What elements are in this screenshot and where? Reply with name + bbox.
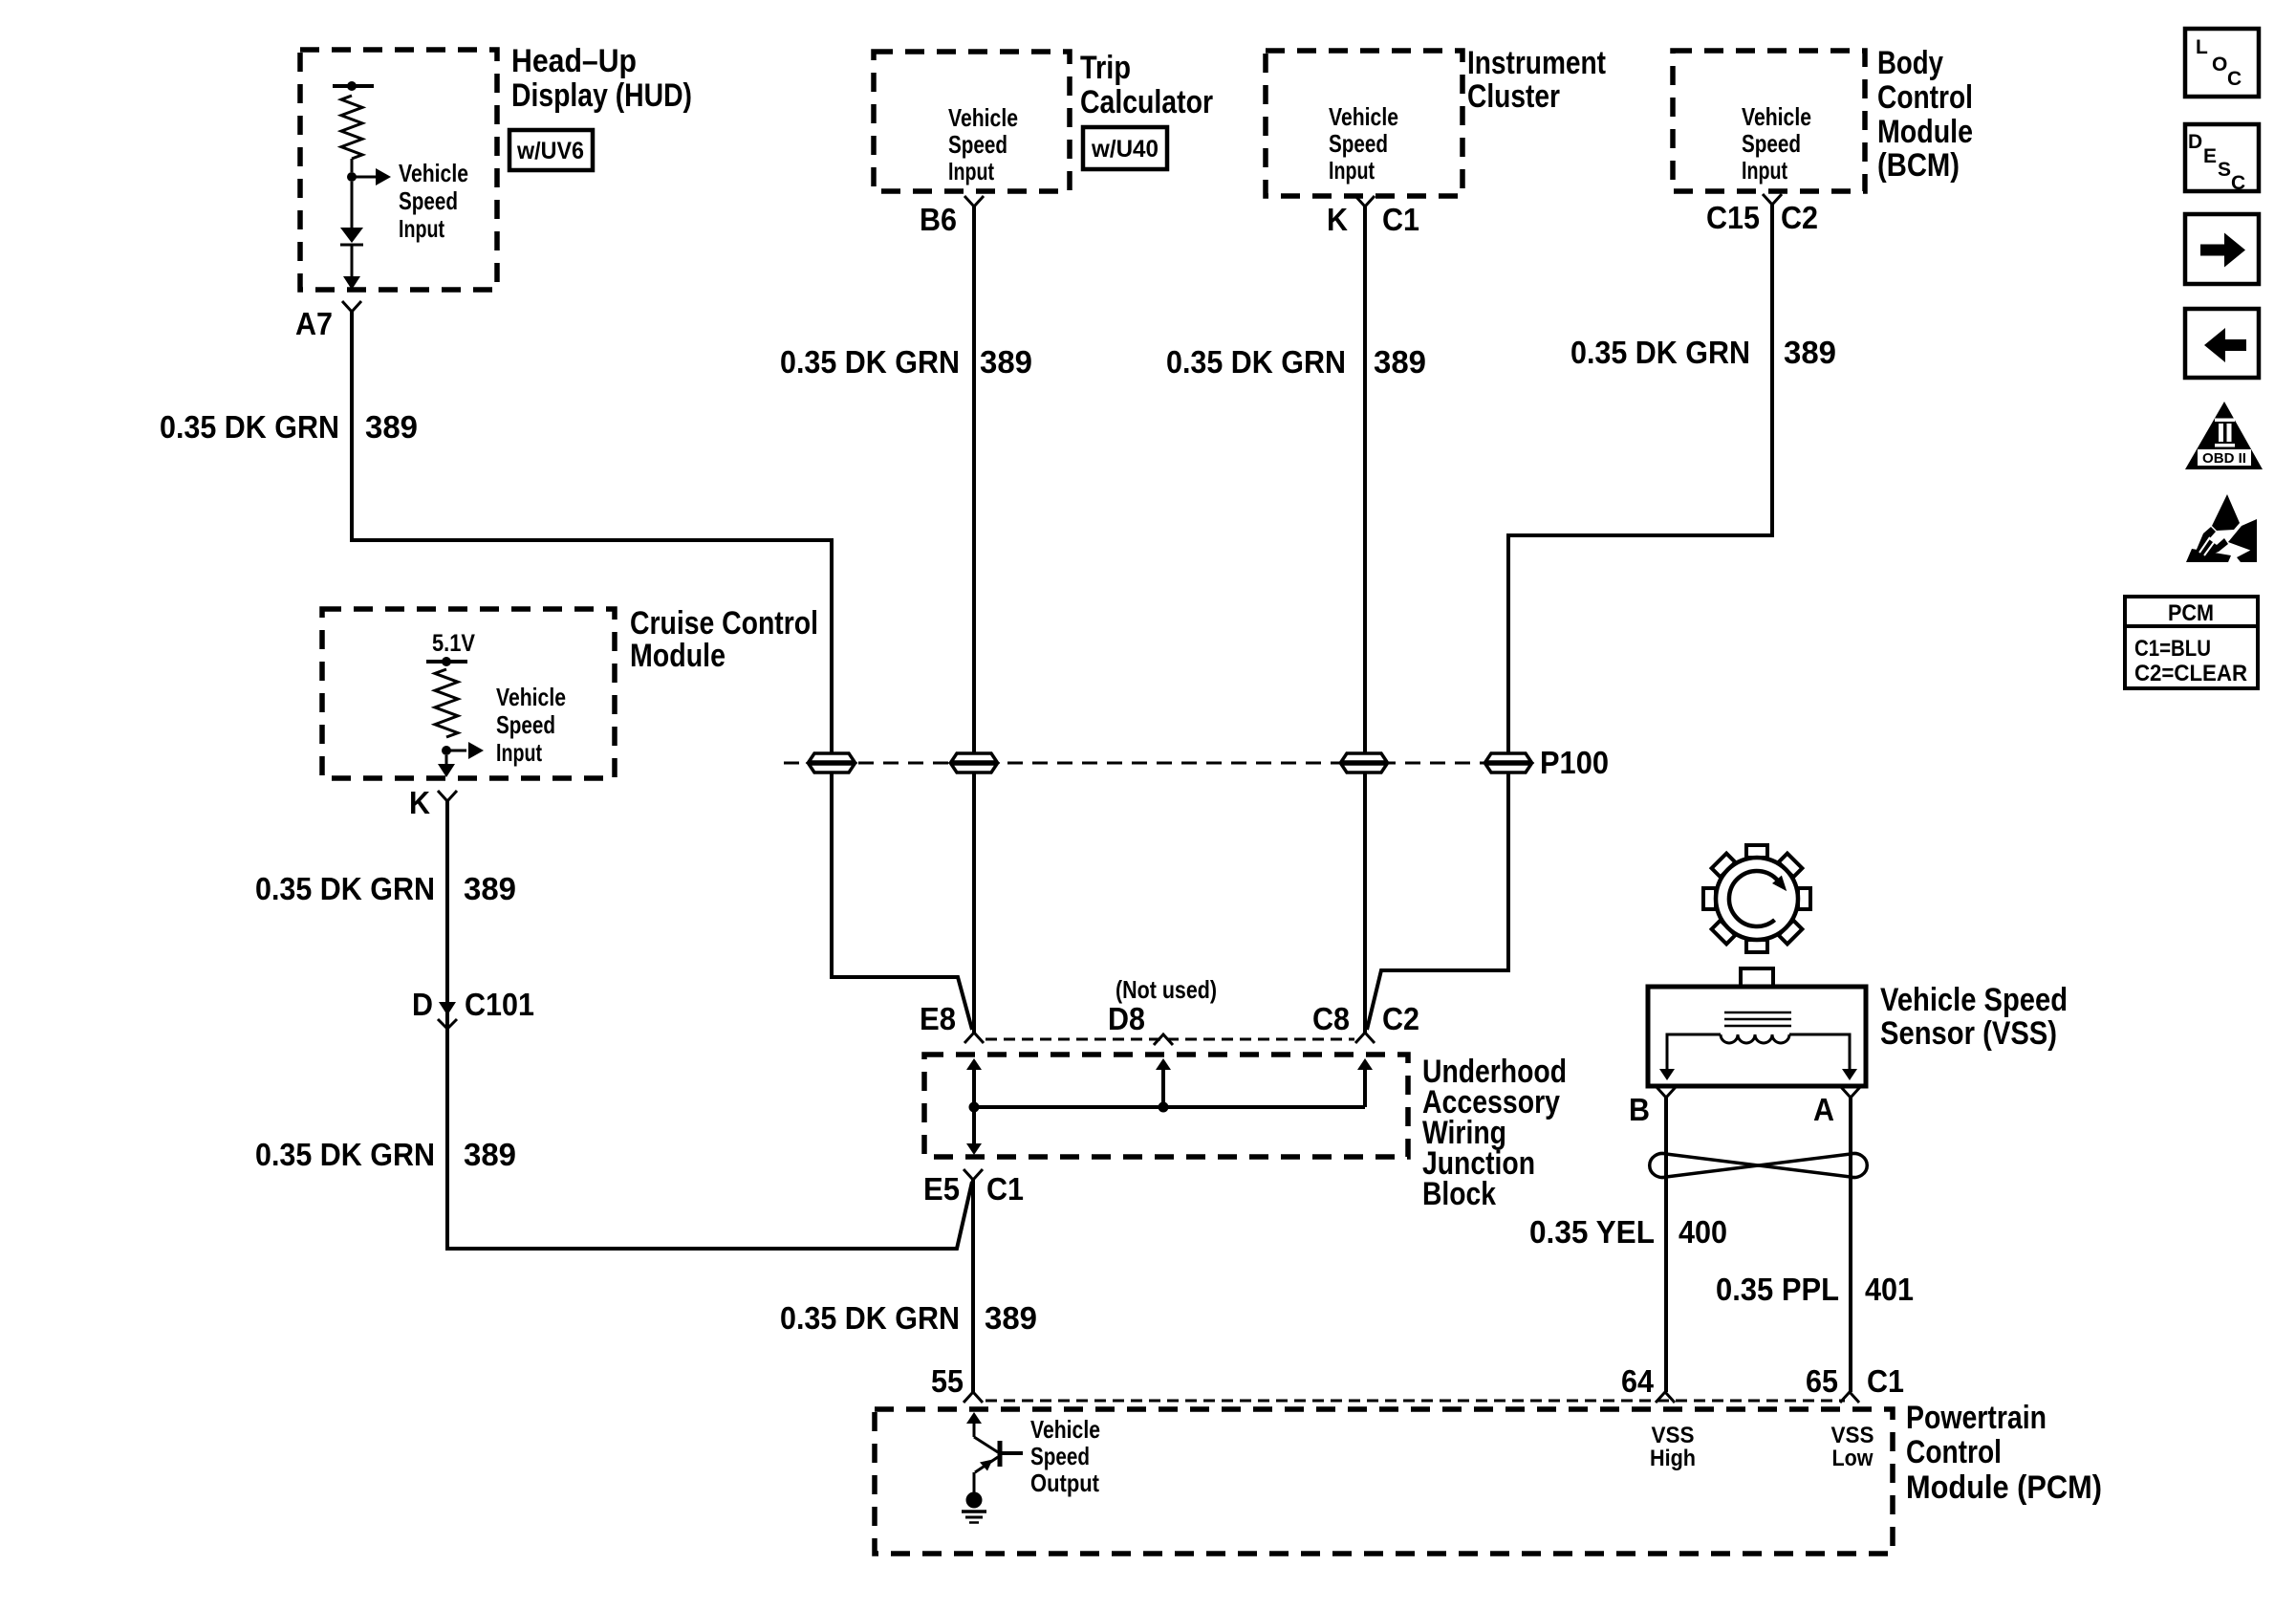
signal tap arrow (cruise internal) bbox=[446, 750, 466, 752]
svg-text:Head–Up: Head–Up bbox=[511, 43, 637, 79]
option box w/U40 bbox=[1083, 127, 1167, 169]
svg-text:C1: C1 bbox=[1382, 202, 1419, 237]
svg-text:PCM: PCM bbox=[2168, 600, 2214, 626]
svg-text:Low: Low bbox=[1832, 1446, 1874, 1471]
svg-text:389: 389 bbox=[980, 344, 1032, 380]
svg-text:D: D bbox=[2188, 131, 2202, 153]
svg-text:Speed: Speed bbox=[948, 130, 1007, 159]
svg-text:Cluster: Cluster bbox=[1467, 78, 1560, 115]
module box: Body Control Module (BCM) bbox=[1673, 51, 1865, 191]
svg-text:400: 400 bbox=[1679, 1214, 1727, 1250]
connector fork E8 bbox=[964, 1033, 984, 1043]
svg-text:D: D bbox=[412, 987, 433, 1022]
svg-text:Display (HUD): Display (HUD) bbox=[511, 77, 692, 114]
svg-text:C8: C8 bbox=[1312, 1001, 1350, 1036]
module box: Cruise Control Module bbox=[322, 609, 615, 778]
junction dot (HUD internal) bbox=[347, 81, 357, 91]
icon ESD warning triangle bbox=[2212, 494, 2240, 531]
icon box DESC bbox=[2185, 124, 2259, 191]
VSS pickup coil bbox=[1721, 1034, 1789, 1043]
VSS core lines bbox=[1724, 1012, 1791, 1014]
wire to ground (PCM internal) bbox=[973, 1472, 976, 1493]
wire 389 from BCM bbox=[1367, 205, 1772, 1030]
wire 401 VSS A to PCM 65 bbox=[1849, 1098, 1852, 1392]
svg-text:389: 389 bbox=[365, 409, 418, 445]
svg-text:A: A bbox=[1813, 1092, 1834, 1127]
connector fork 65 bbox=[1840, 1392, 1859, 1403]
svg-text:D8: D8 bbox=[1108, 1001, 1145, 1036]
junction internal arrow D8 bbox=[1156, 1058, 1171, 1070]
svg-text:L: L bbox=[2196, 36, 2208, 58]
svg-text:Speed: Speed bbox=[1329, 129, 1388, 158]
svg-text:Input: Input bbox=[1329, 156, 1375, 185]
inline connector D C101 arrow bbox=[439, 1002, 456, 1015]
svg-text:A7: A7 bbox=[295, 306, 333, 341]
transistor Q base lead bbox=[1002, 1451, 1023, 1455]
signal tap arrow (HUD internal) bbox=[352, 176, 377, 179]
module box: Powertrain Control Module (PCM) bbox=[875, 1409, 1893, 1554]
wire 400 VSS B to PCM 64 bbox=[1664, 1098, 1668, 1392]
junction internal arrow E8 bbox=[966, 1058, 982, 1070]
VSS mounting stub bbox=[1741, 968, 1773, 987]
svg-text:0.35 DK GRN: 0.35 DK GRN bbox=[1570, 335, 1750, 370]
connector fork C15 C2 bbox=[1763, 194, 1782, 205]
svg-text:w/UV6: w/UV6 bbox=[516, 138, 584, 164]
svg-text:Vehicle: Vehicle bbox=[399, 159, 468, 187]
connector fork C8 C2 bbox=[1355, 1033, 1375, 1043]
terminal chevron D8 (not used) bbox=[1154, 1034, 1173, 1045]
svg-text:Input: Input bbox=[399, 214, 444, 243]
junction internal bus wire bbox=[974, 1105, 1365, 1109]
svg-text:K: K bbox=[1327, 202, 1348, 237]
svg-text:0.35 PPL: 0.35 PPL bbox=[1716, 1272, 1839, 1307]
twisted pair symbol bbox=[1666, 1154, 1851, 1177]
grommet at Trip wire (P100) bbox=[951, 753, 997, 762]
svg-text:0.35 DK GRN: 0.35 DK GRN bbox=[780, 1300, 960, 1336]
wire 389 from Instrument Cluster bbox=[1363, 207, 1367, 1033]
connector fork A7 bbox=[342, 301, 361, 312]
svg-text:C1: C1 bbox=[986, 1171, 1024, 1207]
svg-text:389: 389 bbox=[1374, 344, 1426, 380]
icon box LOC bbox=[2185, 29, 2259, 97]
svg-text:5.1V: 5.1V bbox=[432, 630, 475, 657]
svg-text:C15: C15 bbox=[1706, 200, 1760, 235]
thin connector interface line (junction top) bbox=[986, 1038, 1354, 1041]
connector fork A bbox=[1841, 1087, 1860, 1098]
svg-text:55: 55 bbox=[931, 1363, 964, 1399]
transistor Q collector bbox=[974, 1437, 998, 1452]
VSS rotation arrow bbox=[1729, 871, 1778, 926]
connector fork 55 bbox=[964, 1392, 983, 1403]
svg-text:B: B bbox=[1629, 1092, 1650, 1127]
svg-text:0.35 YEL: 0.35 YEL bbox=[1529, 1214, 1655, 1250]
svg-text:Vehicle: Vehicle bbox=[948, 103, 1018, 132]
svg-text:C2: C2 bbox=[1382, 1001, 1419, 1036]
VSS coil lead A bbox=[1789, 1034, 1850, 1069]
svg-text:C101: C101 bbox=[465, 987, 534, 1022]
transistor Q base bar bbox=[998, 1441, 1003, 1467]
wire (cruise internal) bbox=[445, 755, 448, 771]
svg-text:E: E bbox=[2203, 145, 2217, 167]
svg-text:389: 389 bbox=[1784, 335, 1836, 370]
VSS coil lead B bbox=[1667, 1034, 1721, 1069]
junction internal output wire bbox=[972, 1107, 976, 1143]
VSS reluctor gear teeth bbox=[1746, 845, 1767, 858]
connector fork K (cruise) bbox=[438, 791, 457, 801]
svg-text:Vehicle Speed: Vehicle Speed bbox=[1880, 982, 2068, 1018]
grommet at cluster wire (P100) bbox=[1341, 753, 1387, 762]
connector fork B6 bbox=[964, 196, 984, 207]
svg-text:389: 389 bbox=[985, 1300, 1037, 1336]
diode D (HUD internal) bbox=[340, 228, 363, 243]
junction dot 2 (HUD internal) bbox=[347, 172, 357, 182]
ground symbol bbox=[966, 1492, 983, 1509]
grommet at BCM wire (P100) bbox=[1485, 753, 1531, 762]
svg-text:389: 389 bbox=[464, 871, 516, 906]
module box: Head-Up Display (HUD) bbox=[300, 50, 497, 290]
arrowhead at HUD pin bbox=[343, 276, 360, 290]
connector fork 64 bbox=[1656, 1392, 1675, 1403]
wire (HUD internal) bbox=[351, 182, 354, 228]
svg-text:Block: Block bbox=[1422, 1176, 1496, 1212]
module box: Trip Calculator bbox=[874, 52, 1070, 191]
svg-text:(Not used): (Not used) bbox=[1116, 975, 1217, 1004]
svg-text:C: C bbox=[2231, 172, 2245, 194]
icon OBD II triangle bbox=[2185, 402, 2263, 469]
svg-text:Input: Input bbox=[1742, 156, 1787, 185]
inline connector D C101 chevron bbox=[438, 1019, 457, 1029]
transistor Q emitter bbox=[975, 1457, 998, 1472]
icon box arrow left bbox=[2185, 309, 2259, 378]
svg-text:Input: Input bbox=[948, 157, 994, 185]
svg-text:C: C bbox=[2227, 68, 2242, 90]
svg-text:Module (PCM): Module (PCM) bbox=[1906, 1469, 2102, 1506]
junction internal arrow C8 bbox=[1357, 1058, 1373, 1070]
icon box arrow right bbox=[2185, 214, 2259, 284]
connector fork E5 C1 bbox=[964, 1169, 983, 1180]
svg-text:O: O bbox=[2212, 54, 2227, 76]
resistor (cruise internal) bbox=[435, 669, 458, 737]
module box: Underhood Accessory Wiring Junction Block bbox=[924, 1055, 1408, 1157]
power feed bar (HUD internal) bbox=[333, 84, 374, 88]
wire (HUD internal) bbox=[351, 159, 354, 172]
svg-text:Powertrain: Powertrain bbox=[1906, 1400, 2047, 1436]
svg-text:Control: Control bbox=[1877, 79, 1973, 116]
svg-text:64: 64 bbox=[1621, 1363, 1655, 1399]
wire 389 from cruise bbox=[447, 801, 972, 1249]
connector fork K C1 bbox=[1355, 196, 1375, 207]
svg-text:B6: B6 bbox=[920, 202, 957, 237]
svg-text:0.35 DK GRN: 0.35 DK GRN bbox=[255, 871, 435, 906]
svg-text:Body: Body bbox=[1877, 45, 1943, 81]
svg-text:Vehicle: Vehicle bbox=[1329, 102, 1398, 131]
wire 389 from Trip Calculator B6 bbox=[972, 207, 976, 1033]
junction bus dot left bbox=[969, 1102, 980, 1113]
legend box PCM connectors bbox=[2125, 597, 2258, 688]
svg-text:389: 389 bbox=[464, 1137, 516, 1172]
svg-text:K: K bbox=[409, 785, 430, 820]
svg-text:C1=BLU: C1=BLU bbox=[2134, 636, 2211, 662]
svg-text:65: 65 bbox=[1806, 1363, 1838, 1399]
svg-text:w/U40: w/U40 bbox=[1091, 136, 1159, 163]
junction dot 2 (cruise internal) bbox=[442, 746, 451, 755]
svg-text:Vehicle: Vehicle bbox=[1030, 1415, 1100, 1444]
svg-text:OBD II: OBD II bbox=[2202, 450, 2246, 467]
arrowhead at cruise pin bbox=[438, 764, 455, 777]
PCM output arrow up bbox=[966, 1412, 982, 1424]
svg-text:E8: E8 bbox=[920, 1001, 956, 1036]
wire 389 junction block to PCM bbox=[971, 1180, 975, 1392]
svg-text:0.35 DK GRN: 0.35 DK GRN bbox=[1166, 344, 1346, 380]
pass-through connector line P100 bbox=[784, 762, 1527, 765]
svg-text:S: S bbox=[2218, 159, 2231, 181]
svg-text:Instrument: Instrument bbox=[1467, 45, 1606, 81]
svg-text:Speed: Speed bbox=[1742, 129, 1801, 158]
component box: Vehicle Speed Sensor (VSS) bbox=[1648, 987, 1866, 1086]
svg-text:E5: E5 bbox=[923, 1171, 960, 1207]
svg-text:0.35 DK GRN: 0.35 DK GRN bbox=[255, 1137, 435, 1172]
svg-text:VSS: VSS bbox=[1652, 1423, 1695, 1448]
VSS reluctor gear body bbox=[1716, 858, 1798, 940]
svg-text:Speed: Speed bbox=[399, 186, 458, 215]
svg-text:Speed: Speed bbox=[1030, 1442, 1090, 1470]
grommet at HUD wire (P100) bbox=[809, 753, 855, 762]
5.1V feed bar (cruise internal) bbox=[426, 660, 467, 664]
svg-text:0.35 DK GRN: 0.35 DK GRN bbox=[160, 409, 339, 445]
connector fork B bbox=[1657, 1087, 1676, 1098]
wire (HUD internal) bbox=[351, 245, 354, 283]
svg-text:Module: Module bbox=[1877, 114, 1973, 150]
svg-text:0.35 DK GRN: 0.35 DK GRN bbox=[780, 344, 960, 380]
wire 389 from HUD A7 bbox=[352, 312, 972, 1030]
svg-text:Input: Input bbox=[496, 738, 542, 767]
svg-text:C2=CLEAR: C2=CLEAR bbox=[2134, 661, 2247, 686]
svg-text:Module: Module bbox=[630, 638, 726, 674]
svg-text:Trip: Trip bbox=[1080, 50, 1131, 86]
svg-text:P100: P100 bbox=[1540, 745, 1609, 780]
module box: Instrument Cluster bbox=[1266, 51, 1462, 196]
svg-text:Vehicle: Vehicle bbox=[1742, 102, 1811, 131]
svg-text:401: 401 bbox=[1865, 1272, 1914, 1307]
svg-text:Control: Control bbox=[1906, 1434, 2002, 1470]
svg-text:Vehicle: Vehicle bbox=[496, 683, 566, 711]
option box w/UV6 bbox=[509, 130, 593, 170]
svg-text:(BCM): (BCM) bbox=[1877, 147, 1960, 184]
thin connector interface line (PCM top) bbox=[986, 1400, 1845, 1403]
resistor (HUD internal) bbox=[341, 96, 362, 159]
svg-text:C1: C1 bbox=[1867, 1363, 1904, 1399]
junction bus dot middle bbox=[1159, 1102, 1169, 1113]
svg-text:Speed: Speed bbox=[496, 710, 555, 739]
svg-text:Sensor (VSS): Sensor (VSS) bbox=[1880, 1015, 2057, 1052]
svg-text:High: High bbox=[1650, 1446, 1696, 1471]
svg-text:VSS: VSS bbox=[1831, 1423, 1874, 1448]
svg-text:Cruise Control: Cruise Control bbox=[630, 605, 818, 642]
svg-text:C2: C2 bbox=[1781, 200, 1818, 235]
svg-text:Calculator: Calculator bbox=[1080, 84, 1213, 120]
svg-text:Output: Output bbox=[1030, 1469, 1099, 1497]
junction dot (cruise internal) bbox=[442, 657, 451, 666]
